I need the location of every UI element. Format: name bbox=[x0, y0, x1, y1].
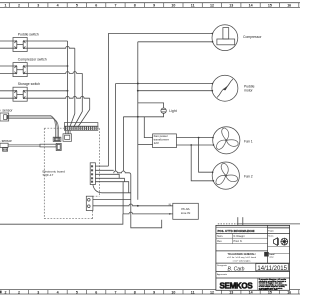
compressor M1 bbox=[212, 25, 262, 51]
date cell bbox=[256, 264, 288, 271]
top border zone strip bbox=[0, 3, 300, 8]
svg-text:Rev.: Rev. bbox=[217, 240, 222, 243]
svg-text:Prod. N.: Prod. N. bbox=[234, 240, 243, 243]
svg-text:11: 11 bbox=[191, 4, 195, 8]
svg-text:T. sensor: T. sensor bbox=[0, 139, 13, 143]
wire J4 pin2 to Line IN N bbox=[93, 204, 173, 206]
branch to fan2 top bbox=[199, 138, 213, 173]
svg-text:14: 14 bbox=[249, 4, 253, 8]
svg-text:14/11/2015: 14/11/2015 bbox=[257, 266, 287, 272]
vertical V1 compressor-top feed bbox=[107, 33, 109, 166]
vertical V2 puddle-top feed bbox=[115, 84, 117, 171]
wire S3 bottom with hops bbox=[27, 96, 89, 98]
wire transformer bottom input bbox=[138, 144, 153, 146]
svg-text:1: 1 bbox=[5, 4, 7, 8]
svg-text:N: N bbox=[169, 202, 171, 206]
F wire to Line IN with hop bbox=[123, 212, 173, 214]
svg-text:7: 7 bbox=[115, 290, 117, 294]
wire J3 pin1 to compressor feed bbox=[95, 165, 108, 167]
svg-text:Puddle switch: Puddle switch bbox=[18, 33, 39, 37]
svg-text:12: 12 bbox=[210, 290, 214, 294]
svg-text:F: F bbox=[169, 212, 171, 216]
right column bbox=[267, 225, 269, 263]
svg-text:Fan 2: Fan 2 bbox=[244, 174, 253, 178]
svg-text:5: 5 bbox=[76, 4, 78, 8]
drop wire x90 bbox=[78, 98, 90, 127]
svg-text:13: 13 bbox=[229, 290, 233, 294]
svg-text:2: 2 bbox=[5, 290, 7, 294]
connector A for sensor B1 bbox=[53, 137, 61, 141]
svg-text:TOLLERANZE GENERALI: TOLLERANZE GENERALI bbox=[228, 253, 256, 256]
svg-text:± 0.2° weld angles: ± 0.2° weld angles bbox=[233, 260, 252, 262]
connector J4 2-pin bbox=[86, 196, 93, 210]
svg-text:15: 15 bbox=[268, 4, 272, 8]
svg-text:8: 8 bbox=[134, 290, 136, 294]
svg-text:12V: 12V bbox=[154, 141, 159, 145]
wire J3 pin3 step bbox=[95, 174, 119, 178]
svg-text:SEMKOS: SEMKOS bbox=[220, 282, 254, 291]
svg-text:4: 4 bbox=[57, 290, 59, 294]
svg-text:3: 3 bbox=[37, 4, 39, 8]
switch S3 Storage switch bbox=[0, 82, 40, 101]
light E1 bbox=[161, 108, 177, 113]
wire transformer out top to fan1 bbox=[176, 137, 212, 139]
switch S2 Compressor switch bbox=[0, 57, 47, 76]
terminal strip J1 bbox=[64, 123, 98, 131]
svg-text:Scala: Scala bbox=[268, 236, 274, 238]
branch to fan2 bottom bbox=[191, 145, 213, 181]
svg-text:9: 9 bbox=[153, 290, 155, 294]
connector B for sensor B2 bbox=[56, 143, 61, 150]
wire J3 pin2 bbox=[95, 169, 113, 171]
wire transformer out bottom to fan1 bbox=[176, 144, 213, 146]
wire S2 bottom with hops bbox=[27, 72, 82, 74]
svg-text:Approvato: Approvato bbox=[217, 273, 228, 276]
sensor B2 bbox=[0, 139, 56, 151]
wire S1 top to common bus bbox=[27, 40, 67, 42]
transformer T1 bbox=[153, 134, 177, 148]
fine print bbox=[259, 278, 288, 291]
switch S1 Puddle switch bbox=[0, 33, 39, 52]
svg-text:N. Disegni: N. Disegni bbox=[234, 235, 245, 238]
puddle motor M2 bbox=[212, 75, 255, 101]
svg-text:5: 5 bbox=[76, 290, 78, 294]
svg-text:2: 2 bbox=[18, 4, 20, 8]
svg-text:4: 4 bbox=[57, 4, 59, 8]
svg-text:Line IN: Line IN bbox=[181, 211, 191, 215]
svg-text:Foglio: Foglio bbox=[268, 230, 274, 232]
svg-text:16: 16 bbox=[287, 290, 291, 294]
wire to compressor bottom bbox=[138, 41, 213, 43]
common vertical bus to terminal strip bbox=[67, 41, 69, 126]
svg-text:POS. UTTD INFORMAZIONI: POS. UTTD INFORMAZIONI bbox=[218, 229, 255, 233]
wire J3 pin4 step bbox=[95, 178, 124, 181]
mini logo bbox=[264, 252, 275, 259]
wire light top bbox=[138, 103, 164, 108]
connector J3 5-pin bbox=[90, 163, 95, 185]
CE horn icon bbox=[274, 238, 278, 246]
svg-text:10: 10 bbox=[171, 290, 175, 294]
neutral bus B bbox=[137, 42, 139, 200]
wire transformer top input bbox=[144, 117, 152, 138]
svg-text:Disegnato: Disegnato bbox=[217, 264, 228, 267]
wire to puddle top bbox=[116, 83, 213, 85]
svg-text:10: 10 bbox=[171, 4, 175, 8]
svg-text:2: 2 bbox=[18, 290, 20, 294]
fan2 M4 bbox=[212, 162, 253, 189]
svg-text:16: 16 bbox=[287, 4, 291, 8]
svg-text:3: 3 bbox=[37, 290, 39, 294]
drop wire x82 bbox=[74, 73, 83, 127]
svg-text:Storage switch: Storage switch bbox=[18, 82, 40, 86]
svg-text:motor: motor bbox=[244, 89, 254, 93]
wire to puddle bottom bbox=[138, 90, 212, 92]
wire S2 top joins common bbox=[27, 65, 67, 67]
svg-text:Light: Light bbox=[169, 109, 176, 113]
svg-text:Fan 1: Fan 1 bbox=[244, 139, 253, 143]
connector J2 under strip bbox=[63, 130, 72, 141]
svg-text:Compressor: Compressor bbox=[243, 35, 262, 39]
svg-text:±0.1 lin / ±0.5 ang / ±0.1 ben: ±0.1 lin / ±0.5 ang / ±0.1 bend bbox=[227, 257, 257, 259]
wire light bottom bbox=[123, 113, 163, 116]
svg-text:8: 8 bbox=[134, 4, 136, 8]
svg-text:13: 13 bbox=[229, 4, 233, 8]
svg-text:9: 9 bbox=[153, 4, 155, 8]
bottom border zone strip bbox=[0, 290, 300, 295]
right bottom exit wire bbox=[218, 217, 300, 233]
svg-text:group: group bbox=[270, 257, 274, 259]
pin5 drop to F bbox=[122, 182, 124, 214]
svg-text:7: 7 bbox=[115, 4, 117, 8]
svg-text:D. sensor: D. sensor bbox=[0, 109, 13, 113]
svg-text:bord: bord bbox=[270, 254, 276, 256]
wire J4 pin1 bbox=[93, 199, 131, 201]
vertical V3 light-bottom drop bbox=[122, 117, 124, 171]
svg-text:14: 14 bbox=[249, 290, 253, 294]
svg-text:12: 12 bbox=[210, 4, 214, 8]
F staircase from left edge bbox=[0, 214, 123, 224]
drop wire x75 bbox=[70, 48, 75, 127]
svg-text:6: 6 bbox=[95, 4, 97, 8]
svg-text:6: 6 bbox=[95, 290, 97, 294]
curve wire from J3 bottom bbox=[93, 185, 131, 193]
wire S3 top joins common bbox=[27, 90, 67, 92]
wire to compressor top bbox=[108, 32, 212, 34]
sensor B1 bbox=[0, 109, 59, 141]
wire J3 pin5 step bbox=[95, 182, 128, 193]
svg-text:SQF-17: SQF-17 bbox=[43, 173, 54, 177]
Line IN box bbox=[169, 202, 199, 219]
fan1 M3 bbox=[213, 127, 253, 154]
title block frame bbox=[216, 225, 290, 290]
electronic board dashed outline bbox=[44, 128, 99, 219]
wire S1 bottom with hop bbox=[27, 46, 75, 48]
svg-text:11: 11 bbox=[191, 290, 195, 294]
arc joins into collector bbox=[114, 171, 162, 228]
wheel icon bbox=[281, 238, 288, 245]
svg-text:Compressor switch: Compressor switch bbox=[18, 57, 47, 61]
svg-text:Num.: Num. bbox=[217, 235, 223, 238]
